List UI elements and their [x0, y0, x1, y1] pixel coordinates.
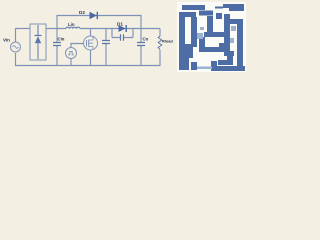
PCB light pad D [230, 38, 234, 43]
gate drive source [66, 48, 77, 59]
PCB trace mid leg [191, 17, 197, 44]
PCB pour bar [179, 12, 196, 17]
wire Cin bottom lead [56, 46, 58, 66]
PCB trace leg a [179, 58, 189, 70]
PCB pour step [199, 11, 213, 16]
snubber capacitor [102, 41, 110, 44]
svg-text:D2: D2 [79, 10, 85, 15]
PCB pad nub [211, 61, 217, 71]
wire Rload bottom lead [159, 50, 161, 66]
PCB trace E vertical [199, 37, 205, 48]
PCB bus bar upper [204, 32, 229, 37]
PCB notch in top-right bar [223, 8, 229, 11]
svg-text:Cin: Cin [58, 37, 65, 42]
PCB light pad B [231, 26, 236, 31]
wire gate source bottom lead [70, 59, 72, 66]
wire gate drive to gate [71, 44, 84, 48]
PCB small square pad [216, 13, 222, 19]
svg-text:D1: D1 [117, 22, 123, 27]
PCB arm [230, 19, 243, 24]
wire D1 branch top [112, 28, 160, 30]
node Cin junction [56, 29, 58, 43]
PCB light pad A [197, 33, 203, 39]
PCB L bar [218, 60, 233, 65]
PCB nub above lower bus bar [219, 43, 224, 48]
PCB stub [230, 51, 234, 56]
transistor Q1 MOSFET [84, 36, 98, 50]
wire top rail with D2 branch [57, 16, 141, 29]
resistor Rload [158, 36, 162, 50]
wire Rload top lead [159, 29, 161, 37]
PCB trace left leg [179, 17, 185, 44]
wire MOSFET drain [90, 29, 92, 37]
svg-text:Rload: Rload [162, 39, 173, 44]
PCB light trace [197, 67, 212, 70]
PCB trace V1 [224, 14, 230, 56]
PCB bottom frame bar [211, 66, 245, 71]
wire D1 parallel branch bottom [112, 37, 133, 39]
PCB pour big block [179, 44, 193, 58]
PCB pour top-right bar [223, 4, 244, 11]
svg-text:Vin: Vin [3, 38, 10, 43]
inductor Lin [66, 27, 80, 28]
PCB thin link [215, 7, 223, 9]
wire bridge to Lin [46, 28, 66, 30]
PCB L nub [227, 56, 233, 61]
bridge rectifier [30, 24, 46, 60]
PCB bus bar lower [199, 47, 229, 52]
wire Co leads [140, 29, 142, 66]
source Vin [11, 42, 21, 52]
wire D1 parallel branch verticals [112, 29, 133, 38]
PCB trace V2 [237, 24, 243, 71]
wire snubber cap leads [105, 29, 107, 66]
PCB panel background [177, 2, 246, 72]
PCB light pad C [200, 27, 204, 30]
diode D2 [90, 12, 98, 19]
capacitor parallel with D1 [121, 34, 124, 41]
wire MOSFET source [90, 50, 92, 66]
capacitor Cin [53, 43, 61, 46]
svg-text:Co: Co [143, 37, 149, 42]
svg-text:Lin: Lin [68, 22, 75, 27]
wire Lin to D1 node [80, 28, 112, 30]
PCB trace leg b [191, 62, 197, 70]
PCB trace vertical [207, 16, 213, 33]
wire bottom rail [16, 53, 161, 66]
PCB pour block step [193, 44, 197, 47]
wire Vin top lead [16, 29, 31, 42]
PCB pour top-left bar [182, 5, 205, 10]
diode D1 [119, 25, 127, 32]
capacitor Co [137, 43, 145, 46]
